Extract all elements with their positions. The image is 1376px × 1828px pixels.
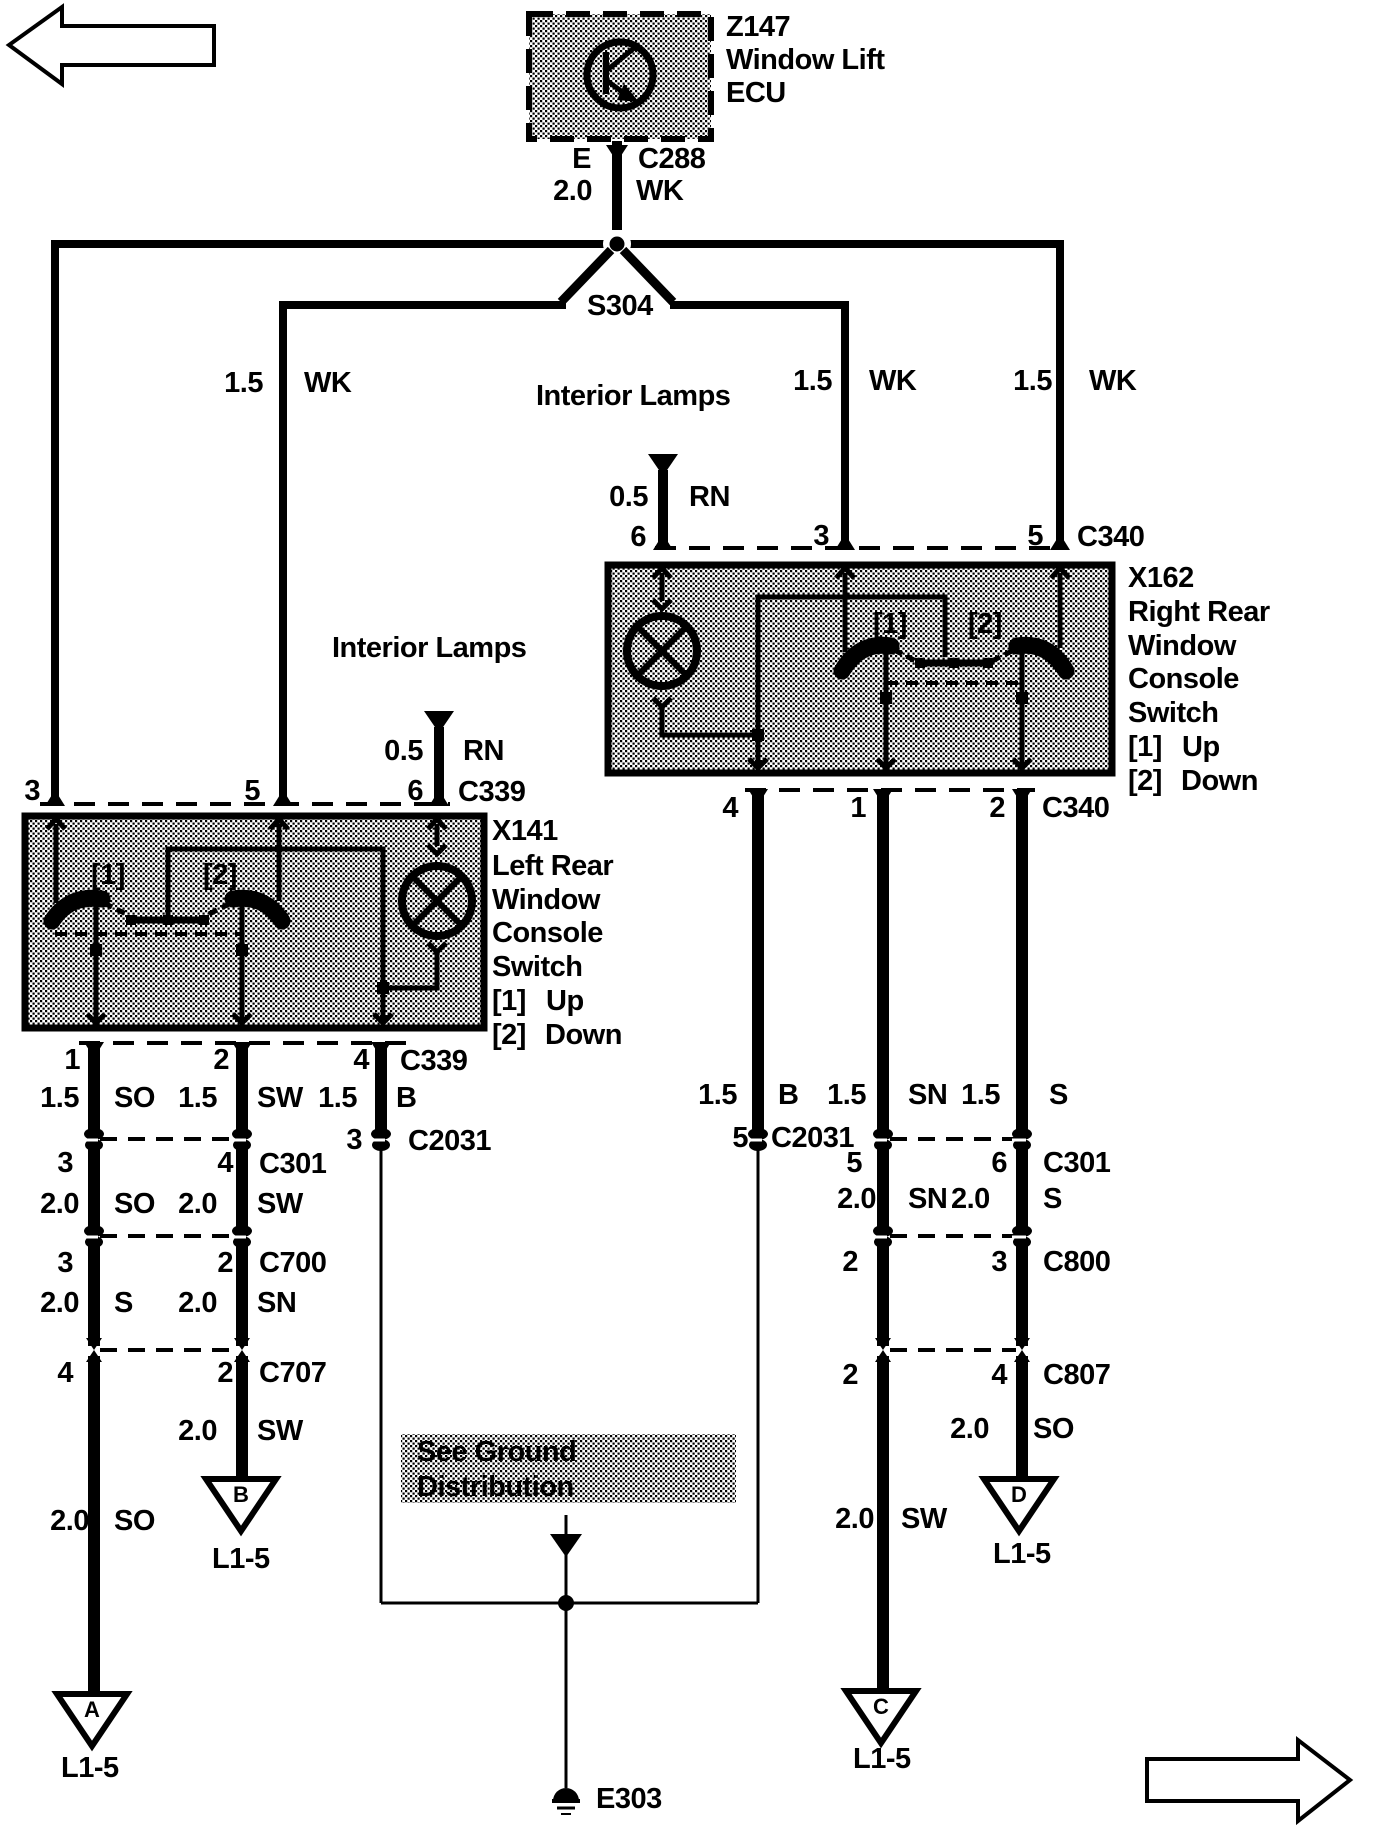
- terminal pin5 C339: [273, 790, 293, 806]
- svg-text:2.0: 2.0: [40, 1188, 79, 1220]
- svg-text:1.5: 1.5: [793, 365, 832, 397]
- svg-text:Right Rear: Right Rear: [1128, 596, 1270, 628]
- svg-text:1.5: 1.5: [827, 1079, 866, 1111]
- terminal pin1 C339 bottom: [84, 1042, 104, 1058]
- svg-text:Z147: Z147: [726, 11, 790, 43]
- X141 switch contact 1: [52, 898, 102, 921]
- node S304: [603, 230, 631, 258]
- svg-text:[1]: [1]: [873, 608, 907, 640]
- X162 linkage dashed line: [886, 681, 1022, 685]
- svg-text:3: 3: [57, 1147, 73, 1179]
- svg-text:5: 5: [732, 1122, 748, 1154]
- interior lamps feed arrow left: [424, 711, 454, 802]
- wire gauge label SW right: [835, 1503, 948, 1535]
- svg-text:Window: Window: [1128, 630, 1237, 662]
- connector C707 splice wire1: [86, 1338, 102, 1362]
- wire SN segment 3: [236, 1242, 248, 1346]
- pin labels C339 top: [24, 775, 525, 808]
- wire gauge labels right row1: [698, 1079, 1068, 1111]
- wire S from X162 pin2: [1016, 790, 1028, 1135]
- svg-text:S304: S304: [587, 290, 653, 322]
- svg-text:C807: C807: [1043, 1359, 1110, 1391]
- connector C707 splice wire2: [234, 1338, 250, 1362]
- terminal pin6 C339: [429, 790, 449, 806]
- svg-text:[1]: [1]: [492, 985, 526, 1017]
- svg-text:4: 4: [217, 1147, 233, 1179]
- wire gauge label SW row4: [178, 1415, 304, 1447]
- svg-text:2.0: 2.0: [40, 1287, 79, 1319]
- pin label E / C288: [553, 143, 706, 207]
- label X141 caption: [492, 815, 622, 1051]
- svg-text:4: 4: [57, 1357, 73, 1389]
- svg-text:2.0: 2.0: [950, 1413, 989, 1445]
- X162 lamp: [627, 616, 697, 686]
- svg-text:Distribution: Distribution: [417, 1471, 574, 1503]
- pin labels C707: [57, 1357, 326, 1389]
- svg-text:WK: WK: [1089, 365, 1137, 397]
- svg-text:SN: SN: [908, 1079, 947, 1111]
- wire horizontal to X141 pin5: [283, 305, 566, 802]
- connector C807 splice wire1: [875, 1338, 891, 1362]
- svg-text:2.0: 2.0: [178, 1287, 217, 1319]
- off-page triangle A: [57, 1694, 127, 1784]
- svg-text:Left Rear: Left Rear: [492, 850, 613, 882]
- svg-text:S: S: [1043, 1183, 1062, 1215]
- connector C339 bottom dashed line: [79, 1041, 407, 1045]
- wire B thin to ground join right: [757, 1150, 760, 1603]
- node ground join: [558, 1595, 574, 1611]
- svg-text:D: D: [1011, 1482, 1027, 1507]
- svg-text:3: 3: [24, 775, 40, 807]
- wire SN from X162 pin1: [877, 790, 889, 1135]
- terminal pin4 C340 bottom: [748, 789, 768, 805]
- connector C2031 right inline: [732, 1122, 854, 1154]
- wire gauge labels right row2: [837, 1183, 1062, 1215]
- connector C700 splice wire1: [84, 1225, 104, 1248]
- label 0.5 RN left: [384, 735, 504, 767]
- svg-text:2.0: 2.0: [178, 1415, 217, 1447]
- svg-text:2.0: 2.0: [837, 1183, 876, 1215]
- svg-text:WK: WK: [304, 367, 352, 399]
- wire right vertical to C340 pin5: [1056, 240, 1064, 545]
- svg-text:SN: SN: [908, 1183, 947, 1215]
- wire S segment 3 right: [1016, 1242, 1028, 1346]
- svg-text:2: 2: [989, 792, 1005, 824]
- svg-text:C339: C339: [458, 776, 526, 808]
- terminal pin5 C340: [1050, 534, 1070, 550]
- terminal pin2 C339 bottom: [232, 1042, 252, 1058]
- wire left vertical to X141 pin3: [51, 240, 59, 802]
- svg-text:SW: SW: [257, 1082, 304, 1114]
- wire gauge label SO row4: [50, 1505, 155, 1537]
- svg-text:C2031: C2031: [771, 1122, 854, 1154]
- connector C807 splice wire2: [1014, 1338, 1030, 1362]
- svg-text:E303: E303: [596, 1783, 662, 1815]
- bus wire top horizontal: [55, 240, 1060, 248]
- svg-text:SW: SW: [257, 1188, 304, 1220]
- connector C800 splice wire2: [1012, 1225, 1032, 1248]
- svg-text:C700: C700: [259, 1247, 326, 1279]
- wire B from X141 pin4: [375, 1043, 387, 1135]
- svg-text:C2031: C2031: [408, 1125, 491, 1157]
- svg-text:SW: SW: [901, 1503, 948, 1535]
- X141 entry chevron pin5: [270, 819, 288, 829]
- off-page triangle C: [846, 1691, 916, 1775]
- X162 switch contact 1: [842, 645, 891, 671]
- wire gauge label SO right: [950, 1413, 1074, 1445]
- X141 lamp wire top: [428, 824, 446, 854]
- page navigation arrow left: [9, 7, 214, 84]
- connector C301 right splice wire2: [1012, 1128, 1032, 1151]
- svg-text:C800: C800: [1043, 1246, 1110, 1278]
- wire S segment 2 right: [1016, 1145, 1028, 1232]
- X141 pin2 internal wire: [233, 919, 251, 1023]
- svg-text:2.0: 2.0: [50, 1505, 89, 1537]
- svg-text:WK: WK: [869, 365, 917, 397]
- X162 switch contact 2: [1017, 645, 1066, 671]
- wire horizontal to X162 pin3: [670, 305, 845, 545]
- svg-text:1.5: 1.5: [1013, 365, 1052, 397]
- wire SO segment 4 right: [1016, 1356, 1028, 1478]
- svg-text:C340: C340: [1042, 792, 1109, 824]
- X162 lamp wire top: [653, 573, 671, 609]
- connector C800 dashed: [890, 1234, 1016, 1238]
- svg-text:Down: Down: [545, 1019, 622, 1051]
- wire to E303: [565, 1550, 568, 1788]
- svg-text:1.5: 1.5: [224, 367, 263, 399]
- svg-text:4: 4: [353, 1044, 369, 1076]
- label 1.5 WK right: [1013, 365, 1137, 397]
- X141 pin3 internal wire: [54, 824, 59, 903]
- svg-text:1: 1: [850, 792, 866, 824]
- pin labels C301 right: [846, 1147, 1110, 1179]
- X162 internal node: [752, 729, 764, 741]
- svg-text:ECU: ECU: [726, 77, 786, 109]
- svg-text:0.5: 0.5: [384, 735, 423, 767]
- connector C340 top dashed line: [655, 546, 1066, 550]
- svg-text:2.0: 2.0: [178, 1188, 217, 1220]
- label 1.5 WK left: [224, 367, 352, 399]
- X162 pin3 internal wire: [843, 573, 848, 652]
- pin labels C340 bottom: [722, 792, 1109, 824]
- wire gauge labels left row3: [40, 1287, 296, 1319]
- off-page triangle D: [984, 1479, 1054, 1570]
- svg-text:3: 3: [991, 1246, 1007, 1278]
- connector C339 top dashed line: [40, 802, 450, 806]
- svg-text:S: S: [114, 1287, 133, 1319]
- svg-text:2: 2: [217, 1247, 233, 1279]
- svg-text:[2]: [2]: [1128, 765, 1162, 797]
- svg-text:Console: Console: [492, 917, 603, 949]
- svg-text:S: S: [1049, 1079, 1068, 1111]
- X162 switch box: [608, 565, 1112, 773]
- terminal pin2 C340 bottom: [1012, 789, 1032, 805]
- svg-text:Switch: Switch: [492, 951, 582, 983]
- svg-text:Switch: Switch: [1128, 697, 1218, 729]
- wire SO from X141 pin1: [88, 1043, 100, 1135]
- svg-text:L1-5: L1-5: [61, 1752, 119, 1784]
- page navigation arrow right: [1147, 1740, 1350, 1821]
- svg-text:[2]: [2]: [203, 859, 237, 891]
- svg-text:SO: SO: [1033, 1413, 1074, 1445]
- svg-text:2: 2: [842, 1359, 858, 1391]
- svg-text:[1]: [1]: [1128, 731, 1162, 763]
- ECU Z147 box: [529, 14, 711, 139]
- svg-text:C339: C339: [400, 1045, 468, 1077]
- svg-text:1.5: 1.5: [318, 1082, 357, 1114]
- X141 switch box: [25, 816, 484, 1028]
- pin labels C807: [842, 1359, 1110, 1391]
- see ground distribution note: [401, 1434, 736, 1503]
- svg-text:A: A: [84, 1697, 100, 1722]
- svg-text:Console: Console: [1128, 663, 1239, 695]
- off-page triangle B: [206, 1479, 276, 1575]
- svg-text:C707: C707: [259, 1357, 326, 1389]
- svg-text:3: 3: [346, 1124, 362, 1156]
- svg-text:See Ground: See Ground: [417, 1436, 576, 1468]
- svg-text:RN: RN: [463, 735, 504, 767]
- svg-text:Window: Window: [492, 884, 601, 916]
- svg-text:2: 2: [217, 1357, 233, 1389]
- X141 pin4 internal wire: [374, 988, 392, 1023]
- svg-text:[1]: [1]: [91, 859, 125, 891]
- svg-text:1: 1: [64, 1044, 80, 1076]
- pin labels C800: [842, 1246, 1110, 1278]
- svg-text:[2]: [2]: [968, 608, 1002, 640]
- pin labels C301 left: [57, 1147, 326, 1180]
- svg-text:E: E: [572, 143, 591, 175]
- connector C2031 left inline: [346, 1124, 491, 1157]
- X141 linkage dashed line: [55, 932, 242, 936]
- label Z147 Window Lift ECU: [726, 11, 885, 109]
- svg-text:2: 2: [213, 1044, 229, 1076]
- svg-text:2: 2: [842, 1246, 858, 1278]
- wire gauge labels left row1: [40, 1082, 416, 1114]
- svg-text:0.5: 0.5: [609, 481, 648, 513]
- wire S304 right diagonal: [623, 250, 673, 302]
- svg-text:X162: X162: [1128, 562, 1194, 594]
- X141 linkage: [104, 903, 231, 925]
- svg-text:5: 5: [846, 1147, 862, 1179]
- X162 linkage: [894, 650, 1014, 668]
- connector C301 right splice wire1: [873, 1128, 893, 1151]
- terminal pin4 C339 bottom: [371, 1042, 391, 1058]
- wire SW segment 4 right: [877, 1356, 889, 1689]
- ground feed arrow: [550, 1515, 582, 1557]
- X162 pin5 internal wire: [1058, 573, 1063, 648]
- svg-text:Window Lift: Window Lift: [726, 44, 885, 76]
- wire S segment 3: [88, 1242, 100, 1346]
- connector C800 splice wire1: [873, 1225, 893, 1248]
- wire SO segment 4: [88, 1356, 100, 1692]
- terminal pin3 C339: [45, 790, 65, 806]
- X141 pin1 internal wire: [87, 919, 105, 1023]
- X162 pin4 internal wire: [749, 735, 767, 768]
- svg-text:Interior Lamps: Interior Lamps: [536, 380, 730, 412]
- svg-text:C301: C301: [259, 1148, 327, 1180]
- connector C807 dashed: [890, 1348, 1016, 1352]
- ECU transistor symbol: [587, 42, 653, 108]
- wire S304 left diagonal: [561, 250, 611, 302]
- svg-text:Up: Up: [546, 985, 584, 1017]
- svg-text:C301: C301: [1043, 1147, 1111, 1179]
- svg-text:4: 4: [991, 1359, 1007, 1391]
- X141 lamp: [402, 866, 472, 936]
- X162 entry chevron pin5: [1051, 568, 1069, 578]
- svg-text:B: B: [778, 1079, 798, 1111]
- connector C301 splice wire2: [232, 1128, 252, 1151]
- wire SN segment 3 right: [877, 1242, 889, 1346]
- svg-text:4: 4: [722, 792, 738, 824]
- X141 internal node: [377, 982, 389, 994]
- svg-text:B: B: [396, 1082, 416, 1114]
- wire SN segment 2 right: [877, 1145, 889, 1232]
- X162 entry chevron pin3: [836, 568, 854, 578]
- svg-text:Down: Down: [1181, 765, 1258, 797]
- label 1.5 WK mid: [793, 365, 917, 397]
- label 0.5 RN right: [609, 481, 730, 513]
- wire B thin to ground join left: [380, 1150, 383, 1603]
- svg-text:Up: Up: [1182, 731, 1220, 763]
- svg-text:L1-5: L1-5: [853, 1743, 911, 1775]
- svg-text:L1-5: L1-5: [993, 1538, 1051, 1570]
- X141 internal wire frame: [168, 849, 383, 988]
- connector C700 dashed: [100, 1234, 236, 1238]
- connector C700 splice wire2: [232, 1225, 252, 1248]
- connector C301 left dashed: [100, 1137, 236, 1141]
- svg-text:WK: WK: [636, 175, 684, 207]
- X162 pin1 internal wire: [877, 666, 895, 768]
- svg-text:SO: SO: [114, 1505, 155, 1537]
- connector C301 right dashed: [890, 1137, 1016, 1141]
- svg-text:6: 6: [630, 521, 646, 553]
- svg-text:SO: SO: [114, 1082, 155, 1114]
- svg-text:SO: SO: [114, 1188, 155, 1220]
- svg-text:SW: SW: [257, 1415, 304, 1447]
- wire SW segment 4: [236, 1356, 248, 1478]
- wire SO segment 2: [88, 1145, 100, 1232]
- terminal pin6 C340: [653, 534, 673, 550]
- svg-text:6: 6: [991, 1147, 1007, 1179]
- connector C340 bottom dashed line: [745, 788, 1035, 792]
- wire gauge labels left row2: [40, 1188, 304, 1220]
- svg-text:3: 3: [57, 1247, 73, 1279]
- X141 entry chevron pin3: [47, 819, 65, 829]
- wire pin E C288 2.0 WK: [606, 141, 628, 230]
- X162 lamp wire bottom: [653, 698, 758, 735]
- pin labels C700: [57, 1247, 326, 1279]
- wire B from X162 pin4: [752, 790, 764, 1135]
- svg-text:L1-5: L1-5: [212, 1543, 270, 1575]
- X162 entry chevron pin6: [653, 568, 671, 578]
- terminal pin3 C340: [835, 534, 855, 550]
- svg-text:SN: SN: [257, 1287, 296, 1319]
- connector C707 dashed: [100, 1348, 236, 1352]
- interior lamps feed arrow right: [648, 454, 678, 545]
- svg-text:B: B: [233, 1482, 249, 1507]
- X141 lamp wire bottom: [383, 943, 446, 988]
- svg-text:1.5: 1.5: [178, 1082, 217, 1114]
- svg-text:RN: RN: [689, 481, 730, 513]
- X162 internal wire frame: [758, 597, 945, 735]
- wire SW from X141 pin2: [236, 1043, 248, 1135]
- X141 pin5 internal wire: [277, 824, 282, 901]
- svg-text:1.5: 1.5: [698, 1079, 737, 1111]
- svg-text:2.0: 2.0: [951, 1183, 990, 1215]
- label X162 caption: [1128, 562, 1270, 797]
- svg-text:1.5: 1.5: [40, 1082, 79, 1114]
- svg-text:1.5: 1.5: [961, 1079, 1000, 1111]
- X141 entry chevron pin6: [428, 819, 446, 829]
- X141 switch contact 2: [233, 898, 282, 921]
- wire SW segment 2: [236, 1145, 248, 1232]
- svg-text:X141: X141: [492, 815, 558, 847]
- pin labels C339 bottom: [64, 1044, 467, 1077]
- wire ground bus horizontal: [381, 1602, 758, 1605]
- svg-text:2.0: 2.0: [553, 175, 592, 207]
- svg-text:2.0: 2.0: [835, 1503, 874, 1535]
- svg-text:C: C: [873, 1694, 889, 1719]
- ground E303: [552, 1783, 662, 1815]
- svg-text:C288: C288: [638, 143, 706, 175]
- X162 pin2 internal wire: [1013, 666, 1031, 768]
- terminal pin1 C340 bottom: [873, 789, 893, 805]
- svg-text:Interior Lamps: Interior Lamps: [332, 632, 526, 664]
- connector C301 splice wire1: [84, 1128, 104, 1151]
- svg-text:[2]: [2]: [492, 1019, 526, 1051]
- svg-text:C340: C340: [1077, 521, 1144, 553]
